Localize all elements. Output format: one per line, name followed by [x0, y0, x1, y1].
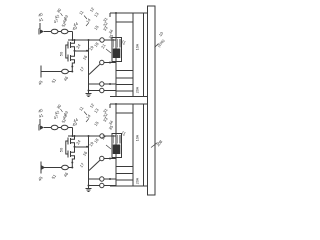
svg-text:10A: 10A — [136, 134, 140, 141]
svg-text:20A: 20A — [136, 177, 140, 184]
svg-text:10A: 10A — [136, 43, 140, 50]
svg-text:50: 50 — [59, 147, 64, 152]
svg-text:20A: 20A — [136, 86, 140, 93]
svg-text:50: 50 — [59, 51, 64, 56]
